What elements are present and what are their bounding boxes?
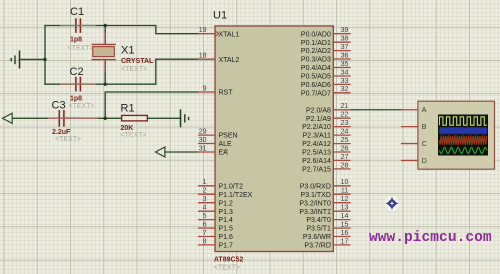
- svg-text:P2.3/A11: P2.3/A11: [303, 133, 331, 140]
- svg-text:CRYSTAL: CRYSTAL: [121, 58, 154, 65]
- pin 23 (P2.2/A10) stub: [302, 120, 351, 131]
- pin 21 (P2.0/A8) stub: [306, 103, 351, 114]
- svg-text:27: 27: [341, 154, 349, 161]
- ground (right of R1): [181, 109, 189, 127]
- svg-text:www.picmcu.com: www.picmcu.com: [369, 230, 492, 246]
- input terminal arrow (C3 net): [3, 113, 13, 123]
- svg-text:P3.5/T1: P3.5/T1: [306, 226, 331, 233]
- svg-text:36: 36: [341, 52, 349, 59]
- pin 17 (P3.7/RD) stub: [304, 238, 350, 249]
- svg-text:P2.6/A14: P2.6/A14: [302, 158, 331, 165]
- cursor crosshair diamond: [385, 196, 400, 211]
- pin 8 (P1.7) stub: [198, 238, 233, 249]
- svg-text:<TEXT>: <TEXT>: [69, 103, 95, 110]
- svg-text:26: 26: [341, 145, 349, 152]
- svg-text:C3: C3: [52, 100, 66, 112]
- pin 26 (P2.5/A13) stub: [302, 145, 351, 156]
- waveform channel A (yellow square wave): [440, 117, 487, 125]
- svg-text:32: 32: [341, 86, 349, 93]
- pin 16 (P3.6/WR) stub: [303, 230, 351, 241]
- svg-text:C: C: [422, 141, 427, 148]
- svg-text:15: 15: [341, 222, 349, 229]
- svg-text:1p8: 1p8: [70, 96, 82, 103]
- pin 24 (P2.3/A11) stub: [303, 129, 351, 140]
- svg-text:P2.2/A10: P2.2/A10: [302, 124, 331, 131]
- svg-text:P0.5/AD5: P0.5/AD5: [301, 74, 331, 81]
- svg-text:30: 30: [199, 137, 207, 144]
- pin 10 (P3.0/RXD) stub: [300, 179, 351, 190]
- capacitor C3: [48, 100, 98, 144]
- svg-text:B: B: [422, 124, 427, 131]
- pin 14 (P3.4/T0) stub: [306, 213, 350, 224]
- svg-text:7: 7: [203, 230, 207, 237]
- svg-text:24: 24: [341, 129, 349, 136]
- svg-text:P2.1/A9: P2.1/A9: [306, 116, 331, 123]
- wire R1 to ground: [147, 117, 180, 119]
- pin 9 (RST) stub: [198, 85, 233, 96]
- svg-text:P2.0/A8: P2.0/A8: [306, 107, 331, 114]
- svg-text:9: 9: [203, 85, 207, 92]
- svg-text:39: 39: [341, 27, 349, 34]
- svg-text:P1.3: P1.3: [219, 209, 234, 216]
- MCU U1 body AT89C52: [215, 26, 333, 252]
- waveform channel C (red wave): [440, 136, 487, 145]
- svg-text:D: D: [422, 158, 427, 165]
- svg-text:4: 4: [203, 205, 207, 212]
- node junction rail/ground: [43, 58, 46, 61]
- svg-text:<TEXT>: <TEXT>: [68, 45, 94, 52]
- capacitor C2: [60, 66, 96, 110]
- svg-text:<TEXT>: <TEXT>: [121, 66, 147, 73]
- svg-text:P3.3/INT1: P3.3/INT1: [299, 209, 331, 216]
- svg-text:14: 14: [341, 213, 349, 220]
- wire RST net from C3/R1 node to MCU pin9: [105, 92, 198, 118]
- waveform channel D (green sine): [440, 147, 487, 153]
- svg-text:P3.7/RD: P3.7/RD: [304, 243, 330, 250]
- svg-text:P1.4: P1.4: [219, 217, 234, 224]
- svg-text:3: 3: [203, 196, 207, 203]
- oscilloscope body: [418, 101, 495, 169]
- svg-text:XTAL2: XTAL2: [219, 57, 240, 64]
- svg-text:8: 8: [203, 238, 207, 245]
- svg-text:P2.4/A12: P2.4/A12: [302, 141, 331, 148]
- wire EA terminal to MCU pin31: [165, 151, 198, 153]
- node junction C2/crystal bottom: [104, 83, 107, 86]
- svg-text:5: 5: [203, 213, 207, 220]
- svg-text:P0.2/AD2: P0.2/AD2: [301, 48, 331, 55]
- svg-text:22: 22: [341, 112, 349, 119]
- wire crystal top pin: [104, 26, 106, 45]
- pin 25 (P2.4/A12) stub: [302, 137, 351, 148]
- svg-text:RST: RST: [219, 90, 234, 97]
- svg-text:P0.3/AD3: P0.3/AD3: [301, 57, 331, 64]
- pin 7 (P1.6) stub: [198, 230, 233, 241]
- capacitor C1: [60, 6, 96, 52]
- svg-text:ALE: ALE: [219, 141, 233, 148]
- pin 5 (P1.4) stub: [198, 213, 233, 224]
- svg-text:P3.6/WR: P3.6/WR: [303, 234, 331, 241]
- svg-text:C2: C2: [70, 66, 84, 78]
- waveform channel B (blue dense wave): [440, 127, 487, 134]
- svg-text:28: 28: [341, 162, 349, 169]
- svg-text:P3.0/RXD: P3.0/RXD: [300, 183, 331, 190]
- pin 4 (P1.3) stub: [198, 205, 233, 216]
- svg-text:19: 19: [199, 27, 207, 34]
- node junction C3/R1/RST: [104, 117, 107, 120]
- pin 39 (P0.0/AD0) stub: [301, 27, 351, 38]
- svg-text:U1: U1: [213, 10, 227, 22]
- svg-text:12: 12: [341, 196, 349, 203]
- svg-text:16: 16: [341, 230, 349, 237]
- pin 2 (P1.1/T2EX) stub: [198, 188, 253, 199]
- svg-text:13: 13: [341, 205, 349, 212]
- svg-text:C1: C1: [70, 6, 84, 18]
- pin 12 (P3.2/INT0) stub: [299, 196, 350, 207]
- svg-text:PSEN: PSEN: [219, 133, 238, 140]
- svg-text:29: 29: [199, 129, 207, 136]
- svg-text:17: 17: [341, 238, 349, 245]
- svg-text:<TEXT>: <TEXT>: [55, 136, 81, 143]
- svg-text:33: 33: [341, 78, 349, 85]
- wire C3 row: terminal to C3: [12, 117, 74, 119]
- svg-text:P1.0/T2: P1.0/T2: [219, 183, 244, 190]
- ground (left, near C1/C2 rail): [11, 51, 19, 69]
- svg-text:P1.1/T2EX: P1.1/T2EX: [219, 192, 253, 199]
- svg-text:<TEXT>: <TEXT>: [214, 264, 240, 271]
- svg-text:P1.2: P1.2: [219, 200, 234, 207]
- svg-text:A: A: [422, 107, 427, 114]
- svg-text:10: 10: [341, 179, 349, 186]
- svg-text:P3.1/TXD: P3.1/TXD: [301, 192, 331, 199]
- oscilloscope channel C pin stub: [401, 141, 427, 148]
- oscilloscope channel D pin stub: [401, 158, 427, 165]
- svg-text:AT89C52: AT89C52: [214, 257, 244, 264]
- svg-text:P2.7/A15: P2.7/A15: [302, 167, 331, 174]
- svg-text:18: 18: [199, 53, 207, 60]
- oscilloscope channel B pin stub: [401, 124, 427, 131]
- pin 18 (XTAL2) stub: [198, 53, 240, 64]
- pin 3 (P1.2) stub: [198, 196, 233, 207]
- pin 29 (PSEN) stub: [198, 129, 238, 140]
- oscilloscope screen: [438, 115, 488, 156]
- svg-text:23: 23: [341, 120, 349, 127]
- pin 19 (XTAL1) stub: [198, 27, 240, 38]
- svg-text:34: 34: [341, 69, 349, 76]
- svg-text:P2.5/A13: P2.5/A13: [302, 150, 331, 157]
- svg-text:35: 35: [341, 61, 349, 68]
- wire XTAL2 net: C2 row to MCU pin18: [45, 59, 198, 84]
- svg-text:37: 37: [341, 44, 349, 51]
- wire XTAL1 net: C1 row to MCU pin19: [45, 26, 198, 34]
- wire crystal bottom pin: [104, 60, 106, 84]
- pin 22 (P2.1/A9) stub: [306, 112, 351, 123]
- svg-text:21: 21: [341, 103, 349, 110]
- wire ground to rail: [20, 58, 46, 60]
- pin 32 (P0.7/AD7) stub: [301, 86, 351, 97]
- svg-text:P3.4/T0: P3.4/T0: [306, 217, 331, 224]
- pin 30 (ALE) stub: [198, 137, 232, 148]
- input terminal arrow (EA net): [156, 147, 165, 157]
- pin 33 (P0.6/AD6) stub: [301, 78, 351, 89]
- svg-text:<TEXT>: <TEXT>: [121, 132, 147, 139]
- pin 27 (P2.6/A14) stub: [302, 154, 351, 165]
- svg-text:X1: X1: [121, 45, 134, 57]
- wire C3 to R1: [66, 117, 122, 119]
- svg-text:P1.6: P1.6: [219, 234, 234, 241]
- resistor R1: [121, 103, 148, 139]
- svg-text:25: 25: [341, 137, 349, 144]
- svg-text:P0.0/AD0: P0.0/AD0: [301, 31, 331, 38]
- svg-text:P0.6/AD6: P0.6/AD6: [301, 82, 331, 89]
- pin 37 (P0.2/AD2) stub: [301, 44, 351, 55]
- svg-text:1: 1: [203, 179, 207, 186]
- svg-text:XTAL1: XTAL1: [219, 31, 240, 38]
- pin 13 (P3.3/INT1) stub: [299, 205, 350, 216]
- svg-text:11: 11: [341, 188, 348, 195]
- svg-text:EA: EA: [219, 150, 229, 157]
- svg-text:P0.4/AD4: P0.4/AD4: [301, 65, 331, 72]
- svg-text:P0.1/AD1: P0.1/AD1: [301, 40, 331, 47]
- oscilloscope channel A pin stub: [401, 107, 427, 114]
- pin 1 (P1.0/T2) stub: [198, 179, 243, 190]
- svg-text:38: 38: [341, 36, 349, 43]
- svg-text:1p8: 1p8: [70, 37, 82, 44]
- pin 36 (P0.3/AD3) stub: [301, 52, 351, 63]
- pin 11 (P3.1/TXD) stub: [301, 188, 351, 199]
- node junction C1/crystal top: [104, 24, 107, 27]
- pin 31 (EA) stub: [198, 145, 228, 156]
- svg-text:P3.2/INT0: P3.2/INT0: [299, 200, 331, 207]
- svg-text:2: 2: [203, 188, 207, 195]
- pin 6 (P1.5) stub: [198, 222, 233, 233]
- pin 38 (P0.1/AD1) stub: [301, 36, 351, 47]
- svg-text:P1.7: P1.7: [219, 243, 234, 250]
- svg-text:31: 31: [199, 145, 207, 152]
- svg-text:P0.7/AD7: P0.7/AD7: [301, 90, 331, 97]
- crystal X1: [92, 33, 155, 74]
- svg-text:20K: 20K: [121, 125, 134, 132]
- wire P2.0 to oscilloscope channel A: [351, 109, 401, 111]
- wire left rail (C1 to C2): [44, 26, 46, 85]
- pin 15 (P3.5/T1) stub: [306, 222, 350, 233]
- pin 28 (P2.7/A15) stub: [302, 162, 351, 173]
- svg-text:P1.5: P1.5: [219, 226, 234, 233]
- pin 35 (P0.4/AD4) stub: [301, 61, 351, 72]
- svg-text:6: 6: [203, 222, 207, 229]
- svg-text:R1: R1: [121, 103, 135, 115]
- pin 34 (P0.5/AD5) stub: [301, 69, 351, 80]
- svg-text:2.2uF: 2.2uF: [52, 129, 71, 136]
